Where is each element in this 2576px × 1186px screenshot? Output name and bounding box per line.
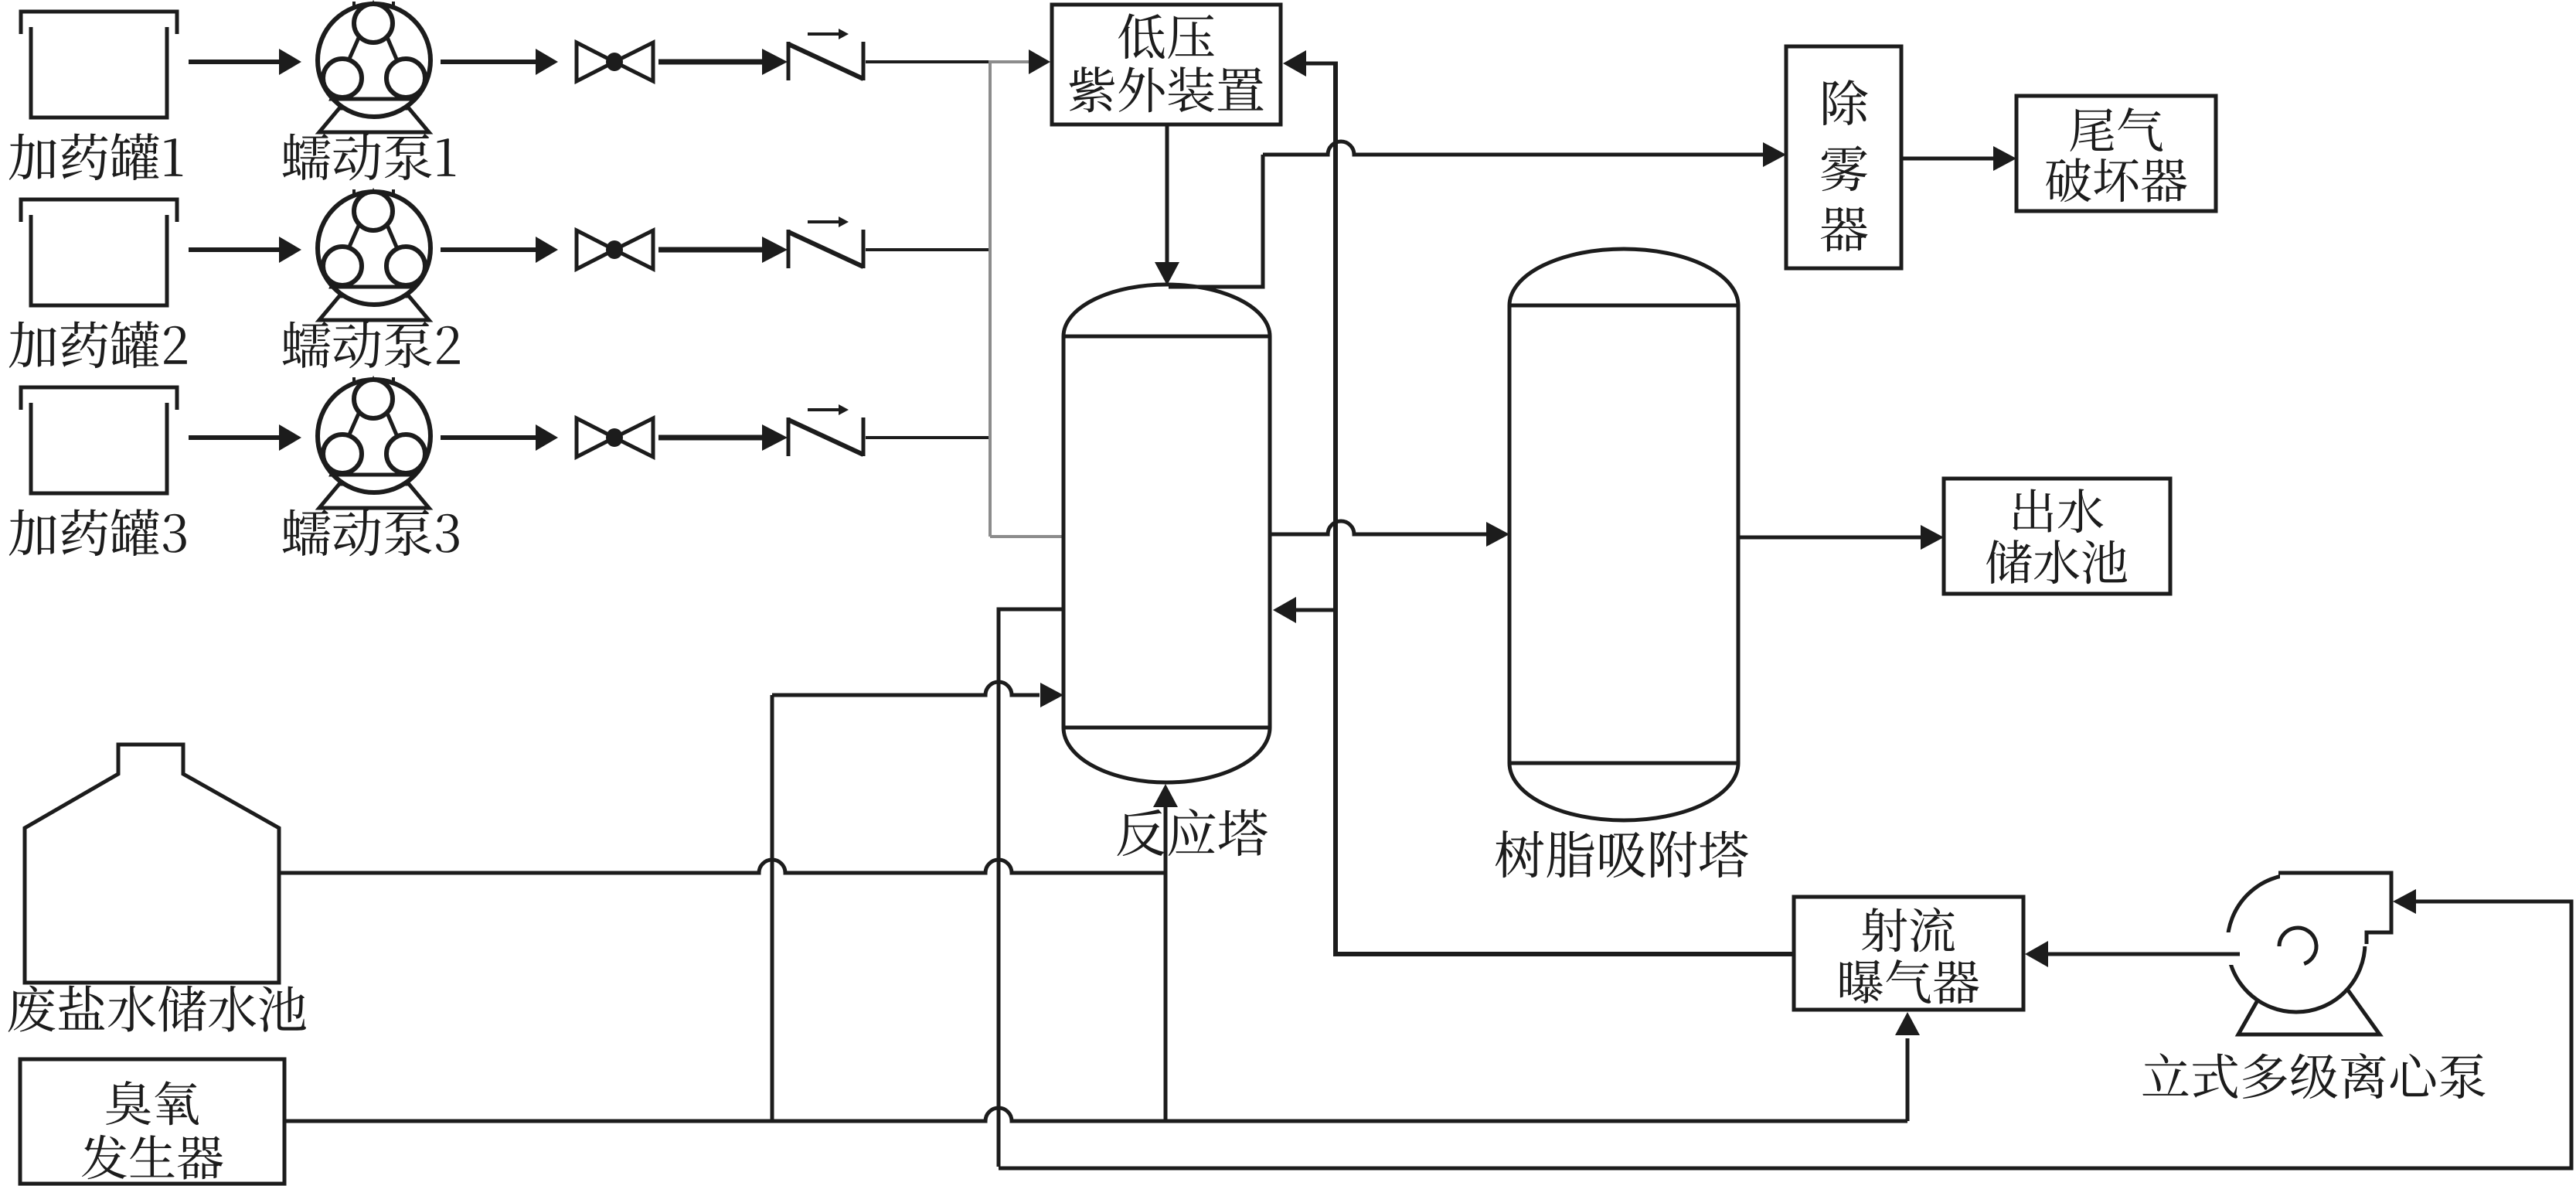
valve V3 <box>577 418 653 457</box>
label 反应塔 <box>1117 809 1267 856</box>
tank 废盐水储水池 waste brine pool <box>25 745 279 983</box>
box 尾气破坏器 tail gas destructor <box>2016 96 2216 211</box>
wire pump discharge to jet aerator <box>2045 953 2240 956</box>
box 除雾器 demister <box>1786 46 1901 268</box>
arrow 加药罐2 to 蠕动泵2 <box>189 247 280 252</box>
check valve CV2 <box>788 216 863 268</box>
wire check valve CV3 output <box>866 436 990 439</box>
tank 加药罐2 lid <box>21 199 177 222</box>
label 发生器 <box>82 1135 223 1180</box>
wire bottom return line to pump <box>999 901 2571 1168</box>
pump 蠕动泵1 <box>318 2 430 132</box>
wire riser arrow into reactor right wall <box>1294 608 1336 612</box>
wire ozone branch into reactor left <box>772 682 1040 695</box>
label 加药罐1 <box>9 133 182 180</box>
tank 加药罐1 body <box>31 27 167 118</box>
box 低压紫外装置 UV unit <box>1052 5 1281 124</box>
arrow 蠕动泵3 to valve V3 <box>441 435 536 440</box>
wire check valve CV1 output <box>866 60 990 63</box>
label 蠕动泵3 <box>283 509 459 556</box>
tank 加药罐3 lid <box>21 387 177 410</box>
label 蠕动泵2 <box>283 321 460 368</box>
wire ozone line up to jet aerator <box>1906 1038 1910 1121</box>
label 加药罐2 <box>9 321 187 368</box>
label 出水 <box>2013 489 2103 533</box>
wire waste brine pool outlet <box>279 860 1165 873</box>
label 立式多级离心泵 <box>2142 1053 2485 1099</box>
tank 加药罐1 lid <box>21 12 177 34</box>
pump 蠕动泵3 <box>318 377 430 508</box>
wire circulation riser x=1728 <box>1333 62 1338 956</box>
wire ozone main line <box>284 1108 1907 1121</box>
label 破坏器 <box>2046 158 2186 202</box>
check valve CV3 <box>788 404 863 456</box>
tank 加药罐2 body <box>31 215 167 305</box>
label 紫外装置 <box>1069 66 1263 112</box>
wire ozone branch riser x=999 <box>771 695 774 1123</box>
label 储水池 <box>1986 540 2127 584</box>
pump 立式多级离心泵 centrifugal pump <box>2045 871 2393 1034</box>
label 低压 <box>1118 13 1214 59</box>
arrow 加药罐1 to 蠕动泵1 <box>189 60 280 64</box>
box 臭氧发生器 ozone generator <box>20 1059 284 1184</box>
wire reactor bottom feed riser x=1508 <box>1164 806 1168 1123</box>
box 射流曝气器 jet aerator <box>1794 897 2023 1010</box>
label 器 <box>1821 207 1868 252</box>
wire gray header to reactor left wall <box>990 535 1062 538</box>
wire UV unit to reactor top <box>1165 124 1169 264</box>
arrow valve V3 to check valve CV3 <box>658 435 762 441</box>
label 废盐水储水池 <box>9 985 306 1031</box>
label 尾气 <box>2070 107 2163 152</box>
arrow 蠕动泵1 to valve V1 <box>441 60 536 64</box>
valve V2 <box>577 230 653 269</box>
pump 蠕动泵2 <box>318 189 430 320</box>
label 蠕动泵1 <box>283 133 456 180</box>
wire reactor top gas line to demister <box>1169 155 1263 287</box>
wire jet aerator outlet to riser <box>1333 952 1794 956</box>
arrow valve V2 to check valve CV2 <box>658 247 762 253</box>
label 射流 <box>1862 908 1955 953</box>
label 臭氧 <box>106 1081 199 1125</box>
check valve CV1 <box>788 29 863 80</box>
vessel 树脂吸附塔 resin adsorption tower <box>1509 249 1738 820</box>
wire check valve CV2 output <box>866 248 990 251</box>
wire reactor mid outlet to resin tower <box>1270 521 1488 534</box>
label 雾 <box>1821 145 1867 191</box>
arrow 加药罐3 to 蠕动泵3 <box>189 435 280 440</box>
box 出水储水池 effluent tank <box>1944 479 2170 594</box>
wire demister to tail-gas destructor <box>1901 157 1995 161</box>
wire reactor left outlet down <box>999 609 1063 1167</box>
arrow valve V1 to check valve CV1 <box>658 60 762 65</box>
wire riser to UV unit right <box>1304 62 1338 66</box>
label 树脂吸附塔 <box>1496 830 1748 878</box>
tank 加药罐3 body <box>31 403 167 493</box>
arrow 蠕动泵2 to valve V2 <box>441 247 536 252</box>
label 加药罐3 <box>9 509 186 556</box>
wire gray dosing header riser <box>989 60 992 537</box>
label 除 <box>1823 80 1867 125</box>
label 曝气器 <box>1840 959 1979 1004</box>
valve V1 <box>577 43 653 81</box>
wire resin tower to effluent tank <box>1738 536 1922 540</box>
vessel 反应塔 reactor <box>1063 285 1270 782</box>
wire gray dosing row1 to UV unit <box>990 60 1031 63</box>
